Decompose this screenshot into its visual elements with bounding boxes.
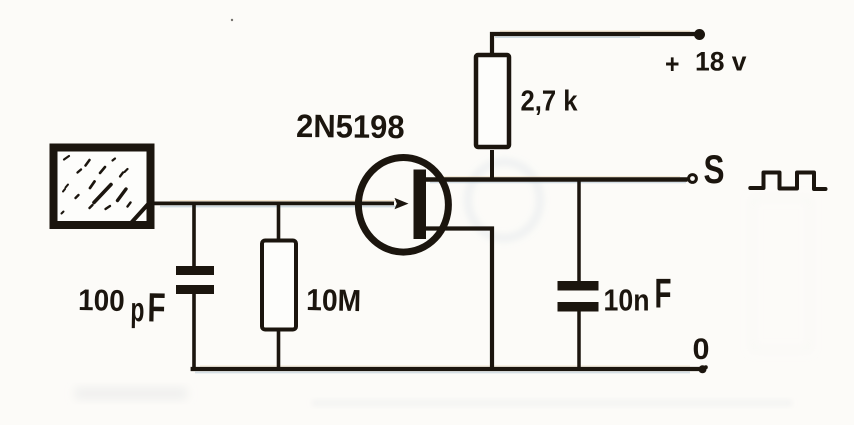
svg-text:100: 100 — [78, 284, 125, 318]
svg-text:18 v: 18 v — [695, 47, 747, 77]
svg-text:0: 0 — [693, 333, 710, 366]
svg-text:S: S — [704, 148, 725, 192]
svg-text:p: p — [130, 291, 145, 329]
svg-text:2N5198: 2N5198 — [296, 108, 405, 145]
svg-text:2,7 k: 2,7 k — [521, 86, 579, 118]
svg-text:10M: 10M — [306, 283, 362, 318]
svg-text:+: + — [665, 49, 680, 79]
svg-text:F: F — [655, 270, 672, 317]
svg-text:F: F — [147, 284, 166, 330]
svg-text:10n: 10n — [604, 283, 650, 318]
